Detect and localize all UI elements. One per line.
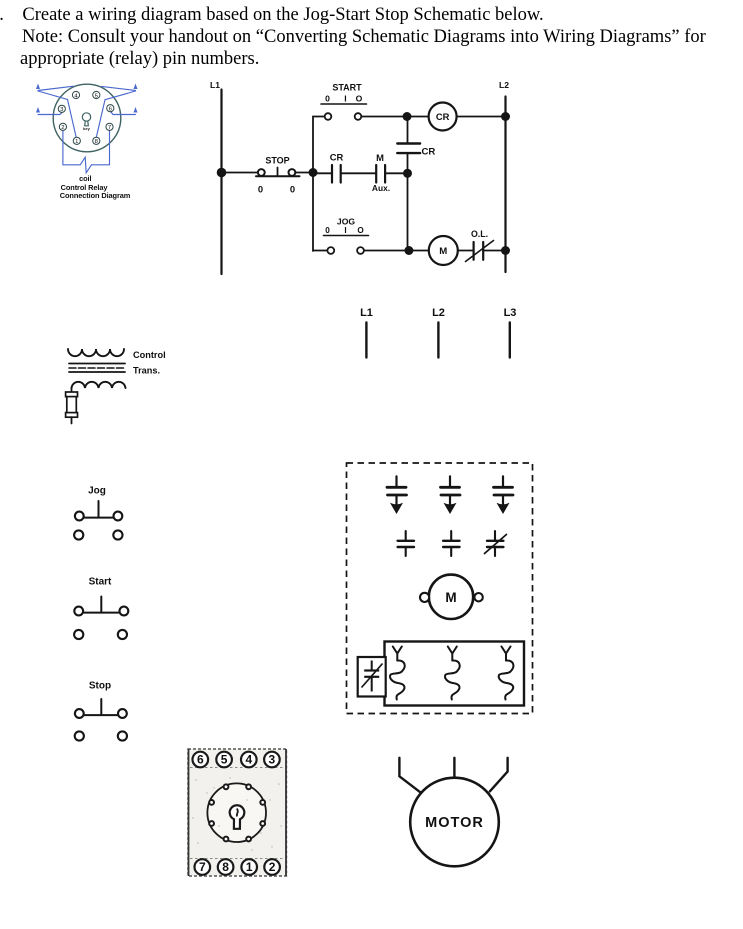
wire riser node B down to jog rung: [407, 173, 409, 250]
node center rung junction: [309, 168, 318, 177]
wire secondary to fuse: [71, 388, 73, 393]
key post symbol: [82, 113, 90, 131]
relay body circle: [53, 84, 121, 152]
contact M Aux (NO): [372, 152, 390, 193]
svg-text:0: 0: [258, 184, 263, 195]
svg-text:0: 0: [290, 184, 295, 195]
coil zigzag symbol: [80, 157, 91, 173]
OL aux contact box: [358, 657, 386, 697]
control transformer: [66, 349, 166, 424]
node on L1 rail: [217, 168, 227, 178]
svg-text:coil: coil: [79, 174, 91, 183]
wire: NO blade lead top-left with arrow: [36, 84, 76, 137]
contact CR (series, NO): [330, 152, 344, 183]
socket terminal 2: [264, 859, 280, 875]
svg-text:L2: L2: [432, 307, 445, 319]
svg-text:7: 7: [108, 125, 111, 131]
disconnect blade pole 3: [494, 476, 514, 514]
coil CR: [429, 103, 457, 131]
pin hole ring: [209, 784, 265, 841]
pushbutton station symbols: [74, 486, 128, 741]
svg-text:key: key: [83, 126, 90, 131]
svg-text:L1: L1: [210, 80, 220, 90]
pushbutton JOG (NO): [324, 217, 369, 254]
label Connection Diagram: [60, 191, 131, 200]
socket terminal 6: [193, 752, 209, 768]
svg-text:JOG: JOG: [337, 217, 355, 227]
wire STOP to center node: [295, 172, 313, 174]
label Control Relay: [61, 183, 109, 192]
wire M coil to OL: [458, 250, 474, 252]
svg-text:I: I: [344, 94, 346, 104]
enclosure dashed border: [347, 463, 533, 714]
svg-text:2: 2: [269, 860, 276, 874]
svg-text:1: 1: [75, 139, 78, 145]
control relay connection diagram (octal socket, blue overlay): [36, 84, 138, 201]
pushbutton Stop: [75, 681, 127, 741]
wire center node to CR contact: [313, 172, 332, 174]
fuse: [66, 392, 78, 417]
wire node A to CR coil: [407, 116, 429, 118]
svg-text:1: 1: [246, 860, 253, 874]
svg-text:Trans.: Trans.: [133, 366, 160, 376]
svg-text:L2: L2: [499, 80, 509, 90]
wire: NC lead mid-left with arrow: [36, 107, 63, 115]
heater element 2: [445, 647, 460, 700]
svg-text:STOP: STOP: [265, 156, 289, 166]
svg-text:7: 7: [199, 860, 206, 874]
svg-text:O: O: [357, 226, 364, 235]
wire L1 to STOP: [222, 172, 258, 174]
disconnect blade pole 1: [387, 476, 407, 514]
svg-text:5: 5: [221, 753, 228, 767]
svg-text:Stop: Stop: [89, 681, 111, 692]
svg-text:CR: CR: [422, 147, 436, 158]
motor: [399, 758, 507, 867]
overload contact O.L.: [466, 229, 494, 262]
starter contact pole 2: [443, 531, 459, 556]
svg-text:Control: Control: [133, 350, 166, 360]
svg-text:O.L.: O.L.: [471, 229, 488, 239]
three-phase supply stubs: [360, 307, 516, 358]
wire CR contact to M contact: [341, 172, 376, 174]
svg-text:Start: Start: [89, 577, 112, 588]
socket body: [188, 749, 287, 876]
rail L1: [210, 80, 222, 274]
motor lead T3: [490, 758, 508, 792]
svg-text:8: 8: [222, 860, 229, 874]
terminal L1: [360, 307, 373, 358]
socket terminal 8: [218, 859, 234, 875]
relay socket base diagram: [188, 749, 287, 876]
svg-text:0: 0: [325, 226, 330, 235]
svg-text:M: M: [439, 246, 447, 257]
pin 4: [72, 91, 79, 99]
ladder control schematic: [210, 80, 510, 274]
coil bracket from pin 2 and pin 7: [63, 130, 110, 165]
node A (top): [403, 112, 412, 121]
starter contact pole 3 with slash: [485, 531, 507, 556]
node B (middle): [403, 169, 412, 178]
socket terminal 1: [241, 859, 257, 875]
pushbutton STOP (NC): [256, 156, 300, 195]
svg-text:O: O: [356, 94, 363, 104]
socket terminal 4: [241, 752, 257, 768]
wire branch to JOG: [313, 250, 327, 252]
coil M: [429, 236, 458, 265]
core lines: [69, 364, 125, 373]
svg-text:Connection Diagram: Connection Diagram: [60, 191, 131, 200]
svg-text:START: START: [332, 83, 362, 93]
label coil: [79, 174, 91, 183]
wire CR coil to L2: [457, 116, 506, 118]
pin 7: [106, 123, 113, 131]
svg-text:6: 6: [197, 753, 204, 767]
svg-text:3: 3: [269, 753, 276, 767]
pushbutton Jog: [74, 486, 122, 540]
socket terminal 3: [264, 752, 280, 768]
wire: NO blade lead top-right with arrow: [97, 84, 138, 137]
secondary winding: [72, 382, 126, 388]
svg-text:CR: CR: [330, 152, 344, 163]
svg-text:0: 0: [325, 94, 330, 104]
pin 2: [59, 123, 66, 131]
starter coil M: [420, 575, 483, 619]
wire below fuse: [71, 417, 73, 423]
motor lead T2: [453, 758, 455, 778]
terminal L2: [432, 307, 445, 358]
keyway: [230, 805, 245, 829]
heater element 3: [499, 647, 514, 700]
motor lead T1: [399, 758, 420, 792]
pushbutton START (NO): [321, 83, 367, 120]
wire START to node A: [361, 116, 407, 118]
wire M contact to node B: [385, 172, 407, 174]
wire OL to L2: [483, 250, 505, 252]
svg-text:M: M: [376, 152, 384, 163]
heater element 1: [390, 647, 405, 700]
terminal L3: [504, 307, 517, 358]
wire: NC lead mid-right with arrow: [111, 107, 138, 115]
svg-text:M: M: [445, 590, 456, 605]
contact CR (vertical branch, NO): [397, 144, 435, 158]
svg-text:MOTOR: MOTOR: [425, 815, 484, 831]
svg-text:CR: CR: [436, 111, 450, 122]
svg-text:L1: L1: [360, 307, 373, 319]
wire branch riser: [313, 117, 325, 252]
pin 1: [73, 137, 80, 145]
motor body: [410, 778, 499, 867]
svg-text:4: 4: [245, 753, 252, 767]
primary winding: [68, 349, 124, 356]
socket terminal 7: [195, 859, 211, 875]
pushbutton Start: [74, 577, 128, 640]
disconnect blade pole 2: [441, 476, 461, 514]
svg-text:I: I: [344, 226, 346, 235]
pin 5: [93, 91, 100, 99]
pin 3: [58, 105, 65, 113]
combination starter enclosure (dashed): [347, 463, 533, 714]
overload heater block: [385, 642, 525, 706]
rail L2: [499, 80, 509, 272]
svg-text:Aux.: Aux.: [372, 183, 390, 193]
svg-text:L3: L3: [504, 307, 517, 319]
socket center boss: [207, 783, 266, 842]
node C (jog rung): [404, 246, 413, 255]
pin 6: [107, 105, 114, 113]
wire riser node A down: [407, 117, 409, 174]
wire JOG to node C: [364, 250, 409, 252]
node on L2 (top rung): [501, 112, 510, 121]
wire node C to M coil: [409, 250, 429, 252]
svg-text:Jog: Jog: [88, 486, 106, 497]
node on L2 (jog rung): [501, 246, 510, 255]
starter contact pole 1: [398, 531, 414, 556]
socket terminal 5: [216, 752, 232, 768]
pin 8: [93, 137, 100, 145]
label Control Trans.: [133, 350, 166, 376]
svg-text:2: 2: [61, 125, 64, 131]
